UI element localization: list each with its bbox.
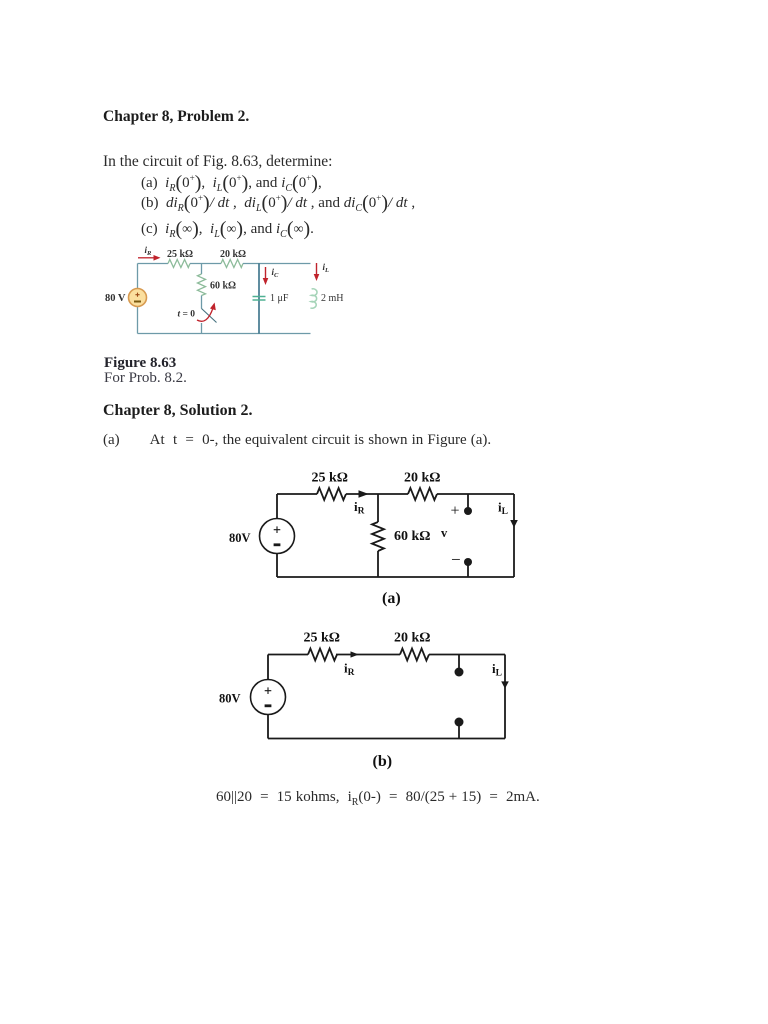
circuit (a) — [230, 465, 530, 620]
arrow iR — [138, 257, 154, 259]
capacitor branch wire — [258, 264, 260, 334]
wire top left segment — [138, 263, 169, 265]
solution line (a) — [103, 432, 491, 449]
bottom terminal dot and stub — [455, 718, 464, 727]
arrow iC — [265, 267, 267, 279]
bottom equation — [216, 789, 540, 808]
resistor 60 kOhm vertical zigzag — [198, 274, 206, 296]
wire top right — [437, 493, 514, 495]
switch arc arrow (red) — [197, 308, 213, 321]
wire top left — [277, 493, 317, 495]
voltage source 80V — [260, 519, 295, 554]
svg-text:(a): (a) — [382, 590, 401, 607]
voltage source 80V — [251, 680, 286, 715]
svg-text:25 kΩ: 25 kΩ — [304, 631, 341, 646]
caption: Figure 8.63 — [104, 355, 176, 372]
wire mid top — [378, 493, 408, 495]
svg-text:−: − — [451, 550, 461, 569]
title: Chapter 8, Solution 2. — [103, 402, 253, 420]
svg-text:20 kΩ: 20 kΩ — [404, 471, 441, 486]
right vertical with arrow — [504, 655, 506, 739]
wire top left — [268, 654, 308, 656]
svg-text:80V: 80V — [229, 531, 251, 545]
svg-text:+: + — [451, 503, 460, 520]
svg-text:25 kΩ: 25 kΩ — [167, 249, 193, 260]
switch blade — [202, 309, 217, 323]
wire below 60k — [201, 296, 203, 309]
bottom terminal dot and stub — [464, 558, 472, 566]
wire with arrow iR — [336, 654, 400, 656]
svg-text:20 kΩ: 20 kΩ — [394, 631, 431, 646]
resistor 25 kOhm zigzag — [168, 260, 190, 268]
svg-text:iR: iR — [354, 499, 365, 517]
svg-text:60 kΩ: 60 kΩ — [210, 281, 236, 292]
svg-text:80 V: 80 V — [105, 293, 126, 304]
wire left vertical — [137, 264, 139, 334]
svg-text:iC: iC — [272, 267, 280, 279]
circuit (b) — [215, 630, 525, 780]
inductor 2 mH coil — [310, 289, 317, 308]
right vertical with arrow — [513, 494, 515, 577]
svg-text:iR: iR — [344, 661, 355, 679]
svg-text:iR: iR — [145, 245, 153, 257]
top terminal stub and dot — [467, 494, 469, 510]
title: Chapter 8, Problem 2. — [103, 108, 249, 126]
left vertical wires — [276, 494, 278, 577]
capacitor plates — [253, 297, 266, 301]
list item (a) — [141, 172, 322, 195]
svg-text:v: v — [441, 526, 448, 540]
wire between resistors — [190, 263, 221, 265]
left vertical wires — [267, 655, 269, 739]
top terminal stub and dot — [458, 655, 460, 671]
resistor 20 kOhm — [400, 649, 429, 661]
wire top right — [429, 654, 505, 656]
list item (c) — [141, 218, 314, 241]
svg-text:2 mH: 2 mH — [321, 293, 344, 304]
wire top right segment — [243, 263, 311, 265]
resistor 60 kOhm vertical — [372, 522, 384, 551]
svg-text:(b): (b) — [373, 753, 393, 770]
resistor 25 kOhm — [308, 649, 337, 661]
bottom wire — [277, 576, 514, 578]
figure 8.63 schematic — [95, 245, 365, 350]
svg-text:1 μF: 1 μF — [270, 293, 289, 304]
bottom wire — [268, 738, 505, 740]
svg-text:25 kΩ: 25 kΩ — [312, 471, 349, 486]
svg-text:iL: iL — [498, 500, 508, 518]
resistor 20 kOhm zigzag — [221, 260, 243, 268]
svg-text:20 kΩ: 20 kΩ — [220, 249, 246, 260]
wire with current arrow iR — [346, 493, 378, 495]
list item (b) — [141, 192, 415, 215]
60k branch vertical — [377, 494, 379, 522]
voltage source 80 V — [129, 289, 147, 307]
svg-text:iL: iL — [323, 262, 330, 274]
wire below switch — [201, 323, 203, 334]
paragraph: In the circuit of Fig. 8.63, determine: — [103, 153, 332, 171]
resistor 25 kOhm — [317, 488, 346, 500]
svg-text:t = 0: t = 0 — [178, 309, 196, 319]
caption: For Prob. 8.2. — [104, 370, 187, 387]
svg-text:80V: 80V — [219, 692, 241, 706]
arrow iR head — [359, 490, 369, 497]
resistor 20 kOhm — [408, 488, 437, 500]
node at 60k branch — [201, 264, 203, 275]
wire bottom — [138, 333, 311, 335]
svg-text:60 kΩ: 60 kΩ — [394, 529, 431, 544]
arrow iL — [316, 263, 318, 275]
svg-text:iL: iL — [492, 661, 502, 679]
